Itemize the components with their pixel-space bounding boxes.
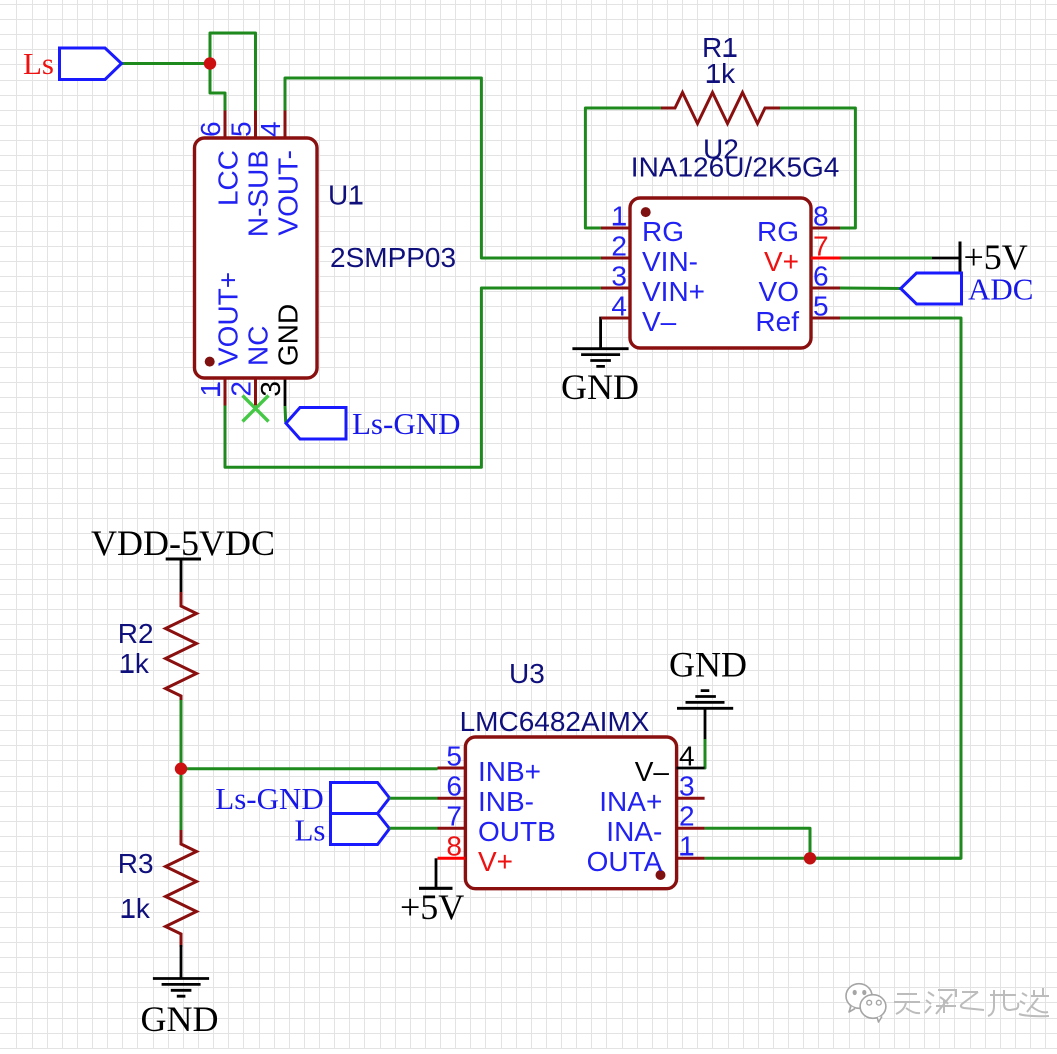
svg-text:V–: V– [635, 756, 670, 787]
pin 5 of U2 [811, 317, 840, 320]
svg-text:INA-: INA- [606, 816, 662, 847]
svg-text:4: 4 [611, 291, 627, 322]
component U2 INA126U/2K5G4 body [630, 198, 811, 348]
wire R1 right to U2 RG8 [780, 108, 855, 228]
svg-text:U1: U1 [328, 180, 364, 211]
svg-text:OUTA: OUTA [587, 846, 663, 877]
wire R2 bottom to junction [180, 700, 183, 769]
wire U1 pin4 to U2 VIN- [285, 78, 602, 258]
svg-text:R2: R2 [118, 618, 154, 649]
ground GND (U3, inverted) [669, 645, 747, 740]
wire R3 to ground (black) [180, 945, 183, 978]
svg-text:Ref: Ref [755, 306, 799, 337]
svg-text:GND: GND [561, 367, 639, 407]
svg-text:V+: V+ [764, 246, 799, 277]
wire U3 INA- to junction [705, 828, 810, 858]
svg-text:INB-: INB- [478, 786, 534, 817]
wire Ls port to U3 OUTB [390, 827, 438, 830]
pin 2 of U2 [601, 257, 630, 260]
wire U3 OUTA to right [705, 857, 961, 860]
wire junction to U3 INB+ [181, 767, 438, 770]
component U3 LMC6482AIMX body [465, 737, 676, 889]
svg-text:4: 4 [255, 121, 286, 137]
svg-text:1k: 1k [120, 893, 151, 924]
port Ls-GND (at U3) [215, 781, 389, 816]
power +5V bar symbol (U3) [400, 887, 464, 927]
wire pin3 stub to port tip [284, 406, 288, 423]
svg-text:1: 1 [195, 381, 226, 397]
svg-text:4: 4 [679, 741, 695, 772]
port Ls (at U3) [295, 813, 390, 848]
wire +5V black segment [932, 257, 959, 260]
node junction divider [175, 763, 187, 775]
svg-text:6: 6 [446, 771, 462, 802]
svg-text:INA+: INA+ [599, 786, 662, 817]
svg-text:VIN+: VIN+ [642, 276, 705, 307]
pin 5 of U1 [254, 111, 257, 139]
svg-text:2SMPP03: 2SMPP03 [330, 242, 456, 273]
svg-text:GND: GND [141, 999, 219, 1039]
wire U2 V- to GND (black) [599, 318, 603, 348]
svg-text:1k: 1k [119, 648, 150, 679]
svg-text:VOUT-: VOUT- [273, 150, 304, 236]
port ADC [901, 272, 1034, 307]
pin 5 of U3 [438, 767, 466, 770]
pin 4 of U2 [601, 317, 630, 320]
svg-text:LCC: LCC [213, 150, 244, 206]
svg-text:VDD-5VDC: VDD-5VDC [91, 523, 275, 563]
svg-text:6: 6 [813, 261, 829, 292]
svg-text:2: 2 [226, 381, 257, 397]
svg-text:V–: V– [642, 306, 677, 337]
resistor R2 1k [118, 592, 197, 700]
svg-text:Ls-GND: Ls-GND [352, 406, 461, 441]
svg-text:1k: 1k [706, 58, 737, 89]
watermark logo wechat [846, 984, 886, 1022]
svg-text:INA126U/2K5G4: INA126U/2K5G4 [631, 152, 840, 183]
svg-text:8: 8 [446, 831, 462, 862]
pin 4 of U3 (black) [677, 767, 705, 770]
node junction Ls [204, 57, 216, 69]
svg-text:R3: R3 [118, 848, 154, 879]
svg-text:7: 7 [446, 801, 462, 832]
wire U2 Ref to OUTA junction (right side vertical) [810, 318, 961, 858]
svg-text:OUTB: OUTB [478, 816, 556, 847]
pin 1 of U1 [224, 378, 227, 406]
wire U1 pin1 to U2 VIN+ [225, 288, 602, 467]
svg-text:+5V: +5V [400, 887, 464, 927]
wire U1 pin3 to Ls-GND port (black) [284, 378, 287, 406]
svg-text:GND: GND [669, 645, 747, 685]
node junction OUTA [804, 852, 816, 864]
pin 6 of U3 [438, 797, 466, 800]
resistor R3 1k [118, 830, 197, 947]
svg-text:Ls-GND: Ls-GND [215, 781, 323, 816]
pin 4 of U1 [284, 111, 287, 139]
wire U2 RG1 to R1 left [585, 108, 661, 228]
pin 7 of U3 [438, 827, 466, 830]
svg-text:7: 7 [813, 231, 829, 262]
watermark text 云深之无迹 (hand drawn strokes) [894, 988, 1049, 1016]
pin 7 of U2 (red) [811, 257, 841, 260]
svg-text:NC: NC [243, 326, 274, 366]
svg-text:VOUT+: VOUT+ [213, 272, 244, 366]
svg-text:1: 1 [679, 831, 695, 862]
pin 2 of U1 [254, 378, 257, 406]
no-connect X on U1 pin2 [243, 396, 269, 422]
svg-text:6: 6 [195, 121, 226, 137]
svg-text:3: 3 [611, 261, 627, 292]
pin 1 of U2 [601, 227, 630, 230]
wire U2 VO to ADC port [840, 287, 901, 291]
port Ls-GND (at U1 pin3) [286, 406, 461, 441]
svg-text:Ls: Ls [23, 46, 54, 81]
port Ls (top left) [23, 46, 122, 81]
svg-text:GND: GND [273, 304, 304, 366]
digit serif bars to mimic original font "1" glyphs [121, 56, 737, 917]
pin 1 of U3 [677, 857, 705, 860]
svg-text:LMC6482AIMX: LMC6482AIMX [460, 706, 650, 737]
svg-text:ADC: ADC [968, 272, 1033, 307]
svg-text:Ls: Ls [295, 813, 326, 848]
wire junction down to R3 [180, 769, 183, 830]
svg-text:VIN-: VIN- [642, 246, 698, 277]
svg-text:2: 2 [679, 801, 695, 832]
wire Ls net from port to junction [121, 62, 210, 65]
pin 8 of U2 [811, 227, 840, 230]
wire Ls net junction to U1 pin6 [210, 64, 225, 112]
svg-text:2: 2 [611, 231, 627, 262]
ground GND (R3) [141, 979, 219, 1040]
pin 8 of U3 (red) [438, 857, 466, 860]
svg-text:5: 5 [446, 741, 462, 772]
svg-text:1: 1 [611, 201, 627, 232]
component U1 2SMPP03 body [195, 138, 318, 378]
ground GND (U2) [561, 349, 639, 407]
wire U3 V- pin to ground (green) [703, 739, 706, 768]
pin 6 of U2 [811, 287, 840, 290]
wire U3 V+ to +5V (black) [435, 858, 438, 887]
svg-text:VO: VO [759, 276, 799, 307]
wire Ls-GND port to U3 INB- [390, 797, 438, 800]
svg-text:3: 3 [255, 381, 286, 397]
svg-text:5: 5 [813, 291, 829, 322]
power VDD-5VDC symbol [91, 523, 275, 592]
power +5V bar symbol (U2) [960, 237, 1028, 277]
svg-text:8: 8 [813, 201, 829, 232]
svg-text:U3: U3 [509, 658, 545, 689]
wire U2 V+ to +5V (green part) [841, 257, 933, 260]
svg-text:5: 5 [226, 121, 257, 137]
wire Ls net junction to U1 pin5 [210, 33, 256, 111]
pin 3 of U2 [601, 287, 630, 290]
svg-text:RG: RG [642, 216, 684, 247]
svg-text:INB+: INB+ [478, 756, 541, 787]
svg-text:RG: RG [757, 216, 799, 247]
pin 6 of U1 [224, 111, 227, 139]
svg-text:3: 3 [679, 771, 695, 802]
pin 2 of U3 [677, 827, 705, 830]
resistor R1 1k [661, 32, 780, 124]
pin 3 of U3 [677, 797, 705, 800]
svg-text:N-SUB: N-SUB [243, 150, 274, 237]
svg-text:V+: V+ [478, 846, 513, 877]
